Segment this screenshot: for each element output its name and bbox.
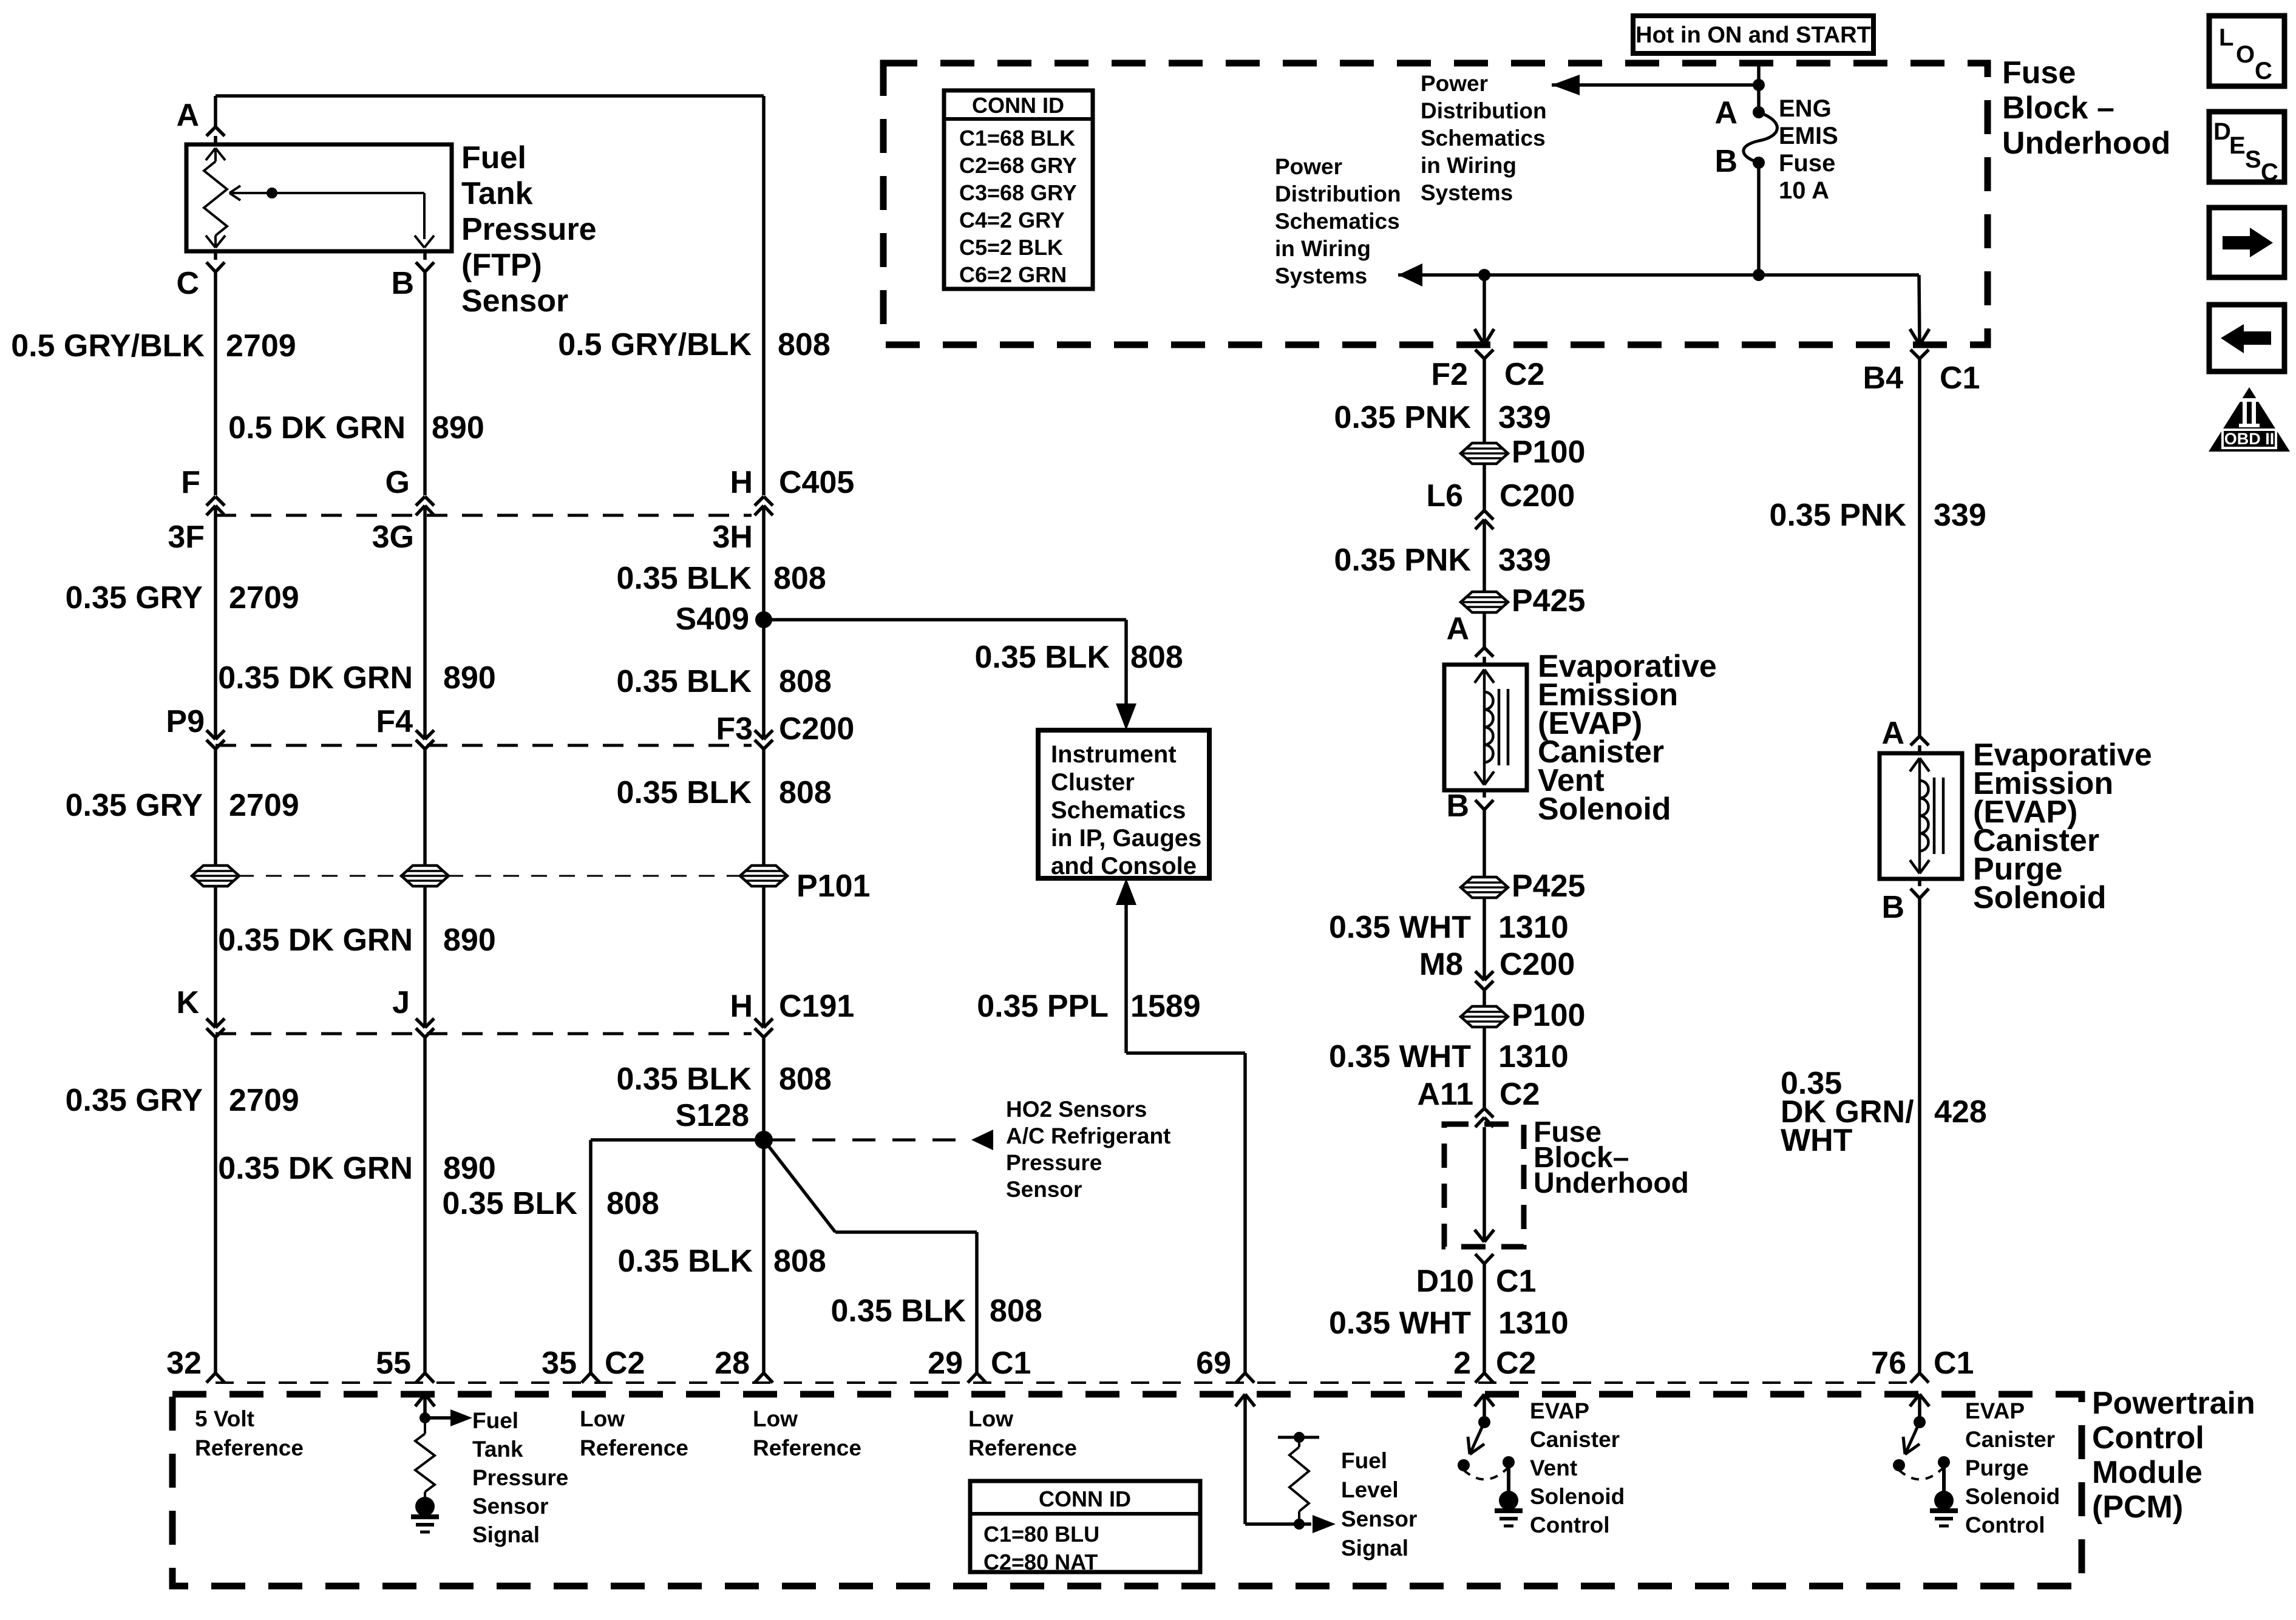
svg-text:EMIS: EMIS [1779,123,1838,149]
svg-text:0.35 BLK: 0.35 BLK [616,664,752,699]
PCM pin 55 [416,1373,425,1383]
wire 808: S409 down to C200 [762,620,766,739]
icon OBD II triangle [2209,387,2290,452]
svg-text:H: H [730,465,753,500]
splice P100 (lower) [1461,1006,1508,1027]
svg-text:P425: P425 [1512,869,1585,904]
svg-text:C200: C200 [1500,478,1575,513]
svg-text:0.5 GRY/BLK: 0.5 GRY/BLK [558,327,752,362]
svg-text:0.5 GRY/BLK: 0.5 GRY/BLK [11,328,205,364]
svg-text:EVAP: EVAP [1530,1398,1589,1423]
svg-text:in Wiring: in Wiring [1275,236,1371,261]
svg-text:EVAP: EVAP [1965,1398,2025,1423]
vent solenoid pin B [1483,790,1486,798]
svg-text:C2=68 GRY: C2=68 GRY [959,153,1077,178]
svg-text:C200: C200 [779,711,854,747]
svg-text:F4: F4 [376,704,413,739]
svg-text:Reference: Reference [580,1435,688,1460]
dashed branch: S128 to HO2 sensors [772,1139,970,1142]
svg-text:A: A [1446,611,1469,646]
svg-text:C4=2 GRY: C4=2 GRY [959,208,1065,232]
wire 1310: pin B down to P425 [1483,810,1486,877]
svg-text:E: E [2229,132,2246,159]
svg-text:Power: Power [1421,71,1488,96]
svg-text:F3: F3 [716,711,753,747]
svg-text:ENG: ENG [1779,95,1832,122]
svg-text:428: 428 [1934,1094,1987,1130]
dashed line connector C191 [216,1032,752,1035]
svg-text:Solenoid: Solenoid [1538,791,1671,827]
wire 2709: K down to PCM pin 32 [214,1037,217,1373]
svg-text:C1: C1 [1934,1346,1974,1381]
svg-text:0.35 WHT: 0.35 WHT [1329,910,1471,945]
svg-text:0.35 DK GRN: 0.35 DK GRN [218,923,413,958]
wire 2709: P9 down to splice P101 [214,749,217,866]
svg-text:Sensor: Sensor [461,283,568,319]
PCM internal: pull-up resistor (FTP) [424,1418,426,1434]
FTP pin C [214,251,217,260]
svg-text:Block –: Block – [2002,90,2114,126]
connector pin A of FTP sensor [206,127,216,136]
svg-text:Hot in ON and START: Hot in ON and START [1635,22,1871,48]
connector C1 terminal B4 (fuse block exit) [1910,329,1920,345]
svg-text:Power: Power [1275,154,1342,179]
icon forward arrow box [2209,208,2284,277]
svg-text:1589: 1589 [1130,989,1201,1024]
svg-text:0.35 GRY: 0.35 GRY [66,788,203,823]
svg-text:Fuse: Fuse [1779,150,1835,177]
svg-text:Instrument: Instrument [1051,741,1177,768]
svg-text:Systems: Systems [1421,180,1513,205]
splice S409 [755,611,772,628]
svg-text:Low: Low [968,1406,1013,1431]
wire 339: corner down to B4 [1919,275,1920,345]
wire 2709: FTP pin C down to C405 [214,272,217,495]
svg-text:Level: Level [1341,1477,1399,1502]
svg-text:0.35 BLK: 0.35 BLK [617,1244,753,1279]
svg-text:C1: C1 [1496,1264,1536,1299]
arrow to power distribution (upper) [1552,83,1759,87]
svg-text:Cluster: Cluster [1051,769,1135,796]
svg-text:1310: 1310 [1498,1306,1569,1341]
wire 808: C191 down to S128 [762,1037,766,1140]
PCM pin 76 [1911,1373,1920,1383]
svg-text:Low: Low [753,1406,798,1431]
svg-text:Schematics: Schematics [1421,126,1546,151]
svg-text:(PCM): (PCM) [2092,1490,2183,1525]
svg-text:B: B [1446,788,1469,824]
svg-text:808: 808 [1130,640,1183,675]
dashed line splice pack P101 [238,875,402,877]
purge solenoid pin B [1918,879,1921,886]
svg-text:0.35 PNK: 0.35 PNK [1334,543,1472,578]
svg-text:C2: C2 [605,1346,645,1381]
svg-text:3H: 3H [713,520,753,555]
svg-text:C: C [2261,159,2278,186]
svg-text:C2: C2 [1500,1077,1540,1112]
svg-text:Distribution: Distribution [1421,98,1547,123]
svg-text:2709: 2709 [226,328,296,364]
svg-text:808: 808 [773,1244,826,1279]
svg-text:A/C Refrigerant: A/C Refrigerant [1006,1123,1170,1148]
svg-text:Schematics: Schematics [1275,209,1400,234]
svg-text:P9: P9 [166,704,205,739]
svg-text:P425: P425 [1512,583,1585,619]
svg-text:C200: C200 [1500,947,1575,982]
EVAP canister vent solenoid [1444,665,1527,790]
svg-text:Reference: Reference [195,1435,304,1460]
svg-text:L6: L6 [1426,478,1463,513]
powertrain control module (PCM) dashed box [172,1394,2082,1586]
svg-text:Sensor: Sensor [1341,1506,1417,1531]
PCM pin 69 [1236,1373,1245,1383]
svg-text:L: L [2219,24,2233,51]
svg-text:Purge: Purge [1965,1456,2029,1480]
wire 339: junction down to F2 [1483,275,1486,345]
svg-text:C1=68 BLK: C1=68 BLK [959,126,1075,151]
svg-text:0.35 WHT: 0.35 WHT [1329,1039,1471,1074]
instrument cluster box [1038,730,1209,878]
svg-text:Fuse: Fuse [2002,55,2076,90]
PCM internal: fuel tank pressure sensor signal input [415,1394,425,1406]
svg-text:Canister: Canister [1530,1427,1620,1452]
PCM pin header dashed line [216,1381,1920,1384]
svg-text:0.35 GRY: 0.35 GRY [66,1083,203,1118]
wire 2709: 3F down to C200 [214,506,217,739]
svg-text:Pressure: Pressure [461,212,597,247]
CONN ID table (fuse block) [944,90,1093,289]
svg-text:OBD II: OBD II [2224,430,2275,448]
splice P425 (lower) [1461,877,1508,898]
svg-text:0.35 BLK: 0.35 BLK [616,775,752,810]
fuse block underhood dashed box [883,63,1988,345]
wire: pass-through inside small fuse block box [1483,1127,1486,1242]
wire 339: P100 down to C200 L6 [1483,464,1486,510]
PCM internal: EVAP canister purge solenoid control driver [1910,1394,1920,1406]
svg-text:28: 28 [715,1346,750,1381]
wire 808 branch: S409 right to instrument cluster [764,618,1126,622]
svg-text:0.35 BLK: 0.35 BLK [442,1186,577,1221]
wire 808: S128 left branch to column 35 [591,1138,764,1142]
svg-text:J: J [392,985,410,1020]
svg-text:808: 808 [606,1186,659,1221]
PCM pin 28 [755,1373,764,1383]
PCM pin 32 [206,1373,216,1383]
fuse ENG EMIS 10A [1753,106,1765,118]
svg-text:808: 808 [773,561,826,596]
svg-text:Fuel: Fuel [472,1408,518,1433]
PCM internal: EVAP canister vent solenoid control driver [1475,1394,1484,1406]
wire 890: F4 down to splice P101 [423,749,427,866]
svg-text:0.35 PNK: 0.35 PNK [1770,498,1907,533]
splice P100 [1461,443,1508,464]
svg-text:76: 76 [1871,1346,1906,1381]
svg-text:Schematics: Schematics [1051,797,1186,824]
svg-text:29: 29 [928,1346,963,1381]
svg-text:M8: M8 [1419,947,1463,982]
splice S128 [755,1131,773,1149]
svg-text:0.35 PNK: 0.35 PNK [1334,400,1472,435]
svg-text:A: A [176,98,199,133]
wire 1589: instrument cluster to PCM pin 69 [1116,878,1136,905]
wire 808: 3H down to S409 [762,506,766,620]
svg-text:S128: S128 [676,1098,749,1133]
svg-text:Underhood: Underhood [2002,126,2170,161]
svg-text:1310: 1310 [1498,910,1569,945]
svg-text:339: 339 [1934,498,1986,533]
svg-text:(FTP): (FTP) [461,248,542,283]
svg-text:WHT: WHT [1781,1123,1853,1158]
icon DESC box [2209,112,2284,182]
svg-text:Control: Control [1530,1513,1610,1537]
wire 339: C200 down to P425 [1483,520,1486,592]
svg-text:C191: C191 [779,989,854,1024]
svg-text:Signal: Signal [1341,1536,1408,1561]
svg-text:0.35 BLK: 0.35 BLK [974,640,1110,675]
wire 1310: C200 down to P100 [1483,990,1486,1006]
svg-text:Sensor: Sensor [472,1494,548,1519]
PCM pin 35 [582,1373,591,1383]
wire 890: FTP pin B down to C405 [423,272,427,495]
splice on P101 line (col 1) [192,866,239,886]
svg-text:339: 339 [1498,543,1551,578]
svg-text:32: 32 [166,1346,202,1381]
svg-text:0.35 WHT: 0.35 WHT [1329,1306,1471,1341]
splice P425 [1461,592,1508,612]
svg-text:0.35 DK GRN: 0.35 DK GRN [218,660,413,696]
svg-text:B: B [1881,890,1904,925]
svg-text:55: 55 [376,1346,411,1381]
svg-text:A: A [1881,716,1904,751]
svg-text:Solenoid: Solenoid [1973,880,2107,915]
svg-text:808: 808 [779,1062,832,1097]
svg-text:B: B [391,266,414,301]
wire 890: J down to PCM pin 55 [423,1037,427,1373]
svg-text:S409: S409 [676,602,749,637]
svg-text:Solenoid: Solenoid [1965,1484,2060,1509]
svg-text:O: O [2236,41,2255,68]
svg-text:890: 890 [432,410,484,446]
PCM internal: fuel level pull-up resistor [1278,1436,1319,1439]
svg-text:0.5 DK GRN: 0.5 DK GRN [228,410,406,446]
svg-text:Fuel: Fuel [461,140,526,175]
svg-text:F: F [181,465,200,500]
svg-text:in IP, Gauges: in IP, Gauges [1051,825,1201,852]
splice P101 [740,866,787,886]
svg-text:Sensor: Sensor [1006,1177,1082,1202]
connector C1 terminal D10 (fuse block exit) [1475,1254,1484,1264]
svg-text:P100: P100 [1512,435,1585,470]
icon LOC box [2209,16,2284,86]
PCM internal: fuel level sensor signal input [1235,1394,1245,1406]
svg-text:2: 2 [1453,1346,1471,1381]
svg-text:808: 808 [779,664,832,699]
svg-text:808: 808 [778,327,830,362]
FTP pin B [423,251,427,260]
splice on P101 line (col 2) [401,866,449,886]
svg-text:Pressure: Pressure [1006,1150,1102,1175]
wire 1310: P100 down to fuse block A11 [1483,1027,1486,1108]
svg-text:A11: A11 [1417,1077,1473,1112]
svg-text:890: 890 [443,1151,496,1186]
svg-text:CONN ID: CONN ID [972,93,1064,118]
svg-text:Vent: Vent [1530,1456,1577,1480]
icon back arrow box [2209,305,2284,371]
svg-text:808: 808 [779,775,832,810]
wire 808: S128 diagonal branch to column 29 [764,1140,835,1232]
svg-text:339: 339 [1498,400,1551,435]
svg-text:Low: Low [580,1406,625,1431]
svg-text:P100: P100 [1512,998,1585,1033]
wire 808: P101 down to C191 [762,886,766,1028]
svg-text:Module: Module [2092,1455,2203,1490]
svg-text:Control: Control [1965,1513,2045,1537]
svg-text:Control: Control [2092,1420,2204,1456]
svg-text:Powertrain: Powertrain [2092,1386,2255,1421]
fuel tank pressure (FTP) sensor box [186,144,452,251]
svg-text:K: K [176,985,199,1020]
svg-text:3F: 3F [168,520,205,555]
svg-text:P101: P101 [796,869,870,904]
dashed line connector C200 [216,744,752,747]
wire 339: B4 down to purge solenoid pin A [1918,359,1921,736]
PCM pin 29 [968,1373,977,1383]
wire: FTP pin A to top line to column H [214,136,217,144]
svg-text:HO2 Sensors: HO2 Sensors [1006,1097,1147,1122]
svg-text:CONN ID: CONN ID [1039,1486,1131,1511]
FTP internal resistor [214,148,217,161]
svg-text:C2: C2 [1504,357,1544,392]
wire 890: 3G down to C200 [423,506,427,739]
PCM pin 2 [1475,1373,1484,1383]
svg-text:F2: F2 [1431,357,1468,392]
fuse block underhood small dashed box [1444,1124,1524,1247]
svg-text:Reference: Reference [753,1435,861,1460]
svg-text:10 A: 10 A [1779,177,1829,204]
svg-text:69: 69 [1196,1346,1231,1381]
arrow to power distribution (lower) [1398,273,1919,277]
svg-text:C: C [2255,58,2272,84]
svg-text:2709: 2709 [229,1083,299,1118]
svg-text:B: B [1714,144,1737,179]
wire: fuse B down to distribution line [1757,163,1761,275]
svg-text:890: 890 [443,923,496,958]
svg-text:S: S [2245,146,2261,173]
svg-text:C6=2 GRN: C6=2 GRN [959,262,1067,287]
svg-text:C1: C1 [991,1346,1031,1381]
svg-text:0.35 PPL: 0.35 PPL [977,989,1109,1024]
svg-text:808: 808 [990,1293,1042,1329]
svg-text:C1: C1 [1940,361,1980,396]
svg-text:B4: B4 [1863,361,1904,396]
svg-text:2709: 2709 [229,580,299,615]
svg-text:D: D [2213,118,2231,145]
svg-text:C: C [176,266,199,301]
CONN ID table (PCM) [970,1481,1200,1572]
svg-text:C2: C2 [1496,1346,1536,1381]
svg-text:0.35 BLK: 0.35 BLK [616,1062,752,1097]
wire 808: F3 down to splice P101 [762,749,766,866]
FTP wiper arm [229,192,424,194]
svg-text:1310: 1310 [1498,1039,1569,1074]
svg-text:0.35 BLK: 0.35 BLK [616,561,752,596]
svg-text:A: A [1714,95,1737,130]
svg-text:Underhood: Underhood [1533,1167,1689,1199]
svg-text:Fuel: Fuel [1341,1448,1387,1473]
connector C2 terminal F2 (fuse block exit) [1475,329,1484,345]
svg-text:Tank: Tank [461,176,533,211]
svg-text:G: G [385,465,410,500]
wire 890: P101 down to C191 [423,886,427,1028]
svg-text:3G: 3G [372,520,414,555]
svg-text:5 Volt: 5 Volt [195,1406,254,1431]
svg-text:0.35 GRY: 0.35 GRY [66,580,203,615]
svg-text:35: 35 [542,1346,577,1381]
svg-text:Solenoid: Solenoid [1530,1484,1625,1509]
svg-text:0.35 DK GRN: 0.35 DK GRN [218,1151,413,1186]
svg-text:Distribution: Distribution [1275,181,1401,206]
svg-text:Reference: Reference [968,1435,1077,1460]
svg-text:Systems: Systems [1275,263,1367,288]
svg-text:C2=80 NAT: C2=80 NAT [983,1550,1098,1574]
Hot in ON and START box [1633,16,1873,53]
svg-text:H: H [730,989,753,1024]
svg-text:in Wiring: in Wiring [1421,153,1517,178]
svg-text:Signal: Signal [472,1522,540,1547]
ground (FTP pull-up) [411,1514,439,1519]
wire 2709: P101 down to C191 [214,886,217,1028]
wire 808: S128 down to PCM pin 28 [762,1140,766,1373]
svg-text:C1=80 BLU: C1=80 BLU [983,1522,1099,1547]
svg-text:C405: C405 [779,465,854,500]
wire 339: P425 down to vent solenoid pin A [1483,612,1486,648]
svg-text:2709: 2709 [229,788,299,823]
svg-text:0.35 BLK: 0.35 BLK [830,1293,966,1329]
svg-text:890: 890 [443,660,496,696]
svg-text:Pressure: Pressure [472,1465,568,1490]
EVAP canister purge solenoid [1880,753,1962,879]
svg-text:Tank: Tank [472,1437,523,1462]
svg-text:and Console: and Console [1051,853,1197,879]
svg-text:C5=2 BLK: C5=2 BLK [959,235,1063,260]
wire 339: F2 down to P100 [1483,359,1486,443]
svg-text:C3=68 GRY: C3=68 GRY [959,180,1077,205]
wire 428: pin B down to PCM pin 76 [1918,898,1921,1373]
svg-text:D10: D10 [1416,1264,1474,1299]
svg-text:Canister: Canister [1965,1427,2055,1452]
wire 1310: P425 down to C200 M8 [1483,898,1486,980]
wire: hot feed down to fuse [1757,63,1761,107]
dashed line connector C405 [216,514,752,517]
